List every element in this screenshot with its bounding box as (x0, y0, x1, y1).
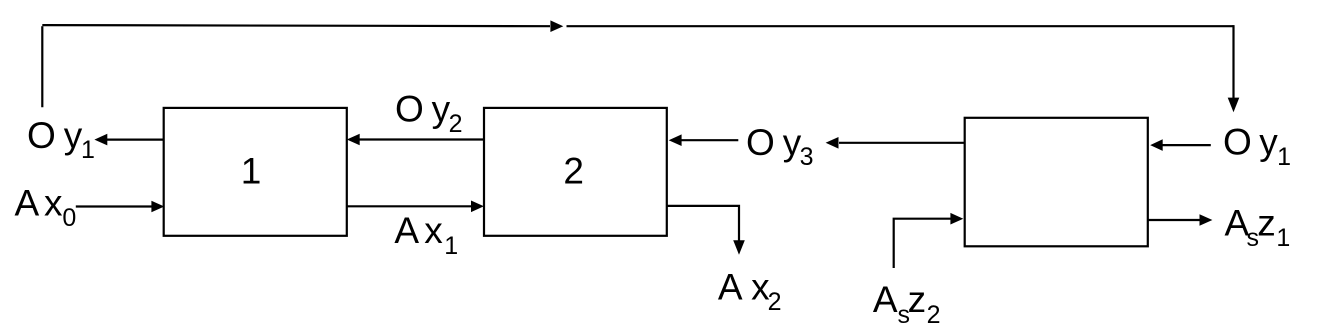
arrowhead O y3 into block 2 (669, 134, 682, 146)
wire O y2 from block 2 to block 1 (360, 138, 485, 140)
svg-text:1: 1 (1276, 224, 1290, 252)
svg-text:A: A (718, 266, 743, 307)
wire feedback top horizontal left part (42, 25, 550, 26)
label O y3 (746, 122, 814, 171)
svg-text:0: 0 (62, 204, 76, 232)
wire A x1 from block 1 to block 2 (347, 205, 472, 207)
arrowhead O y2 into block 1 (347, 134, 360, 146)
arrowhead into O y3 from block 3 (826, 137, 839, 149)
svg-text:2: 2 (449, 110, 463, 138)
svg-text:2: 2 (927, 301, 941, 328)
svg-text:y: y (1259, 122, 1278, 163)
svg-text:1: 1 (1277, 143, 1291, 171)
arrowhead feedback down into O y1 right (1228, 98, 1240, 113)
label A x0 (15, 182, 77, 232)
svg-text:1: 1 (444, 232, 458, 260)
label As z1 (1225, 203, 1291, 253)
arrowhead O y1 left (94, 134, 107, 146)
svg-text:O: O (1223, 122, 1252, 163)
svg-text:O: O (27, 115, 56, 156)
svg-text:1: 1 (81, 136, 95, 164)
wire O y3 into block 2 (681, 139, 738, 141)
svg-text:2: 2 (563, 151, 584, 192)
arrowhead mid feedback pointing right (550, 20, 563, 32)
wire O y1 right into block 3 (1163, 144, 1211, 146)
svg-text:O: O (395, 89, 424, 130)
block 3 (965, 118, 1148, 247)
svg-text:O: O (746, 122, 775, 163)
svg-text:y: y (64, 115, 83, 156)
wire feedback right vertical (1232, 25, 1234, 99)
wire block 3 to O y3 (839, 142, 965, 144)
arrowhead A x1 into block 2 (471, 201, 484, 213)
arrowhead As z2 into block 3 (950, 213, 963, 225)
svg-text:x: x (424, 210, 443, 251)
label A x1 (394, 210, 458, 260)
block 2 (484, 108, 667, 236)
label A x2 (718, 266, 782, 315)
wire A x2 output of block 2 (667, 206, 739, 241)
wire As z2 input to block 3 (894, 219, 951, 268)
label As z2 (873, 279, 941, 328)
arrowhead A x0 (151, 201, 164, 213)
block 1 (164, 108, 347, 236)
wire As z1 output of block 3 (1148, 219, 1200, 221)
label O y1 left (27, 115, 95, 164)
wire O y1 left output from block 1 (106, 139, 163, 141)
svg-text:z: z (908, 279, 927, 320)
label O y2 (395, 89, 463, 138)
svg-text:z: z (1257, 203, 1276, 244)
svg-text:A: A (15, 182, 40, 223)
wire A x0 input to block 1 (76, 205, 153, 207)
svg-text:3: 3 (800, 143, 814, 171)
arrowhead As z1 (1200, 214, 1213, 226)
svg-text:2: 2 (768, 288, 782, 316)
arrowhead O y1 right into block 3 (1150, 139, 1163, 151)
svg-text:A: A (873, 279, 898, 320)
arrowhead A x2 down (733, 240, 745, 254)
svg-text:A: A (394, 210, 419, 251)
svg-text:x: x (44, 182, 63, 223)
wire feedback top horizontal right part (567, 25, 1234, 27)
label O y1 right (1223, 122, 1291, 171)
wire feedback left vertical (41, 26, 43, 107)
svg-text:1: 1 (241, 151, 262, 192)
